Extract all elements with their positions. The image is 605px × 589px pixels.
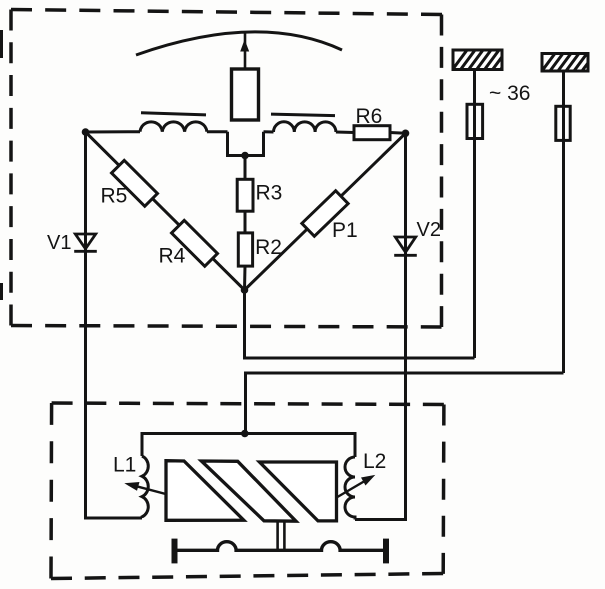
inductor L1 bbox=[142, 456, 148, 518]
wire: right arm diagonal bbox=[245, 133, 406, 290]
wire: left node to left coil bbox=[86, 130, 141, 133]
plunger stem bbox=[278, 521, 285, 550]
supply terminal 1 (hatched) bbox=[450, 46, 518, 73]
left pole bar bbox=[141, 113, 206, 115]
svg-text:R5: R5 bbox=[101, 185, 128, 208]
svg-text:~ 36: ~ 36 bbox=[489, 82, 530, 105]
node: left top corner bbox=[82, 128, 90, 136]
scan mark left edge top bbox=[0, 30, 3, 58]
svg-text:L1: L1 bbox=[113, 454, 136, 477]
resistor R2 bbox=[238, 233, 252, 266]
arrow L2 (adjustable) bbox=[321, 475, 375, 507]
svg-text:R6: R6 bbox=[356, 105, 383, 128]
inductor L2 bbox=[345, 457, 355, 520]
fixed coil left bbox=[140, 122, 207, 132]
node: bridge vertex bbox=[241, 286, 249, 294]
resistor R5 bbox=[112, 160, 158, 206]
wire: center step-down U bbox=[228, 132, 264, 156]
core right trapezoid bbox=[260, 462, 337, 521]
svg-text:V2: V2 bbox=[417, 219, 441, 241]
node: right top corner bbox=[402, 130, 410, 138]
base end bar left bbox=[172, 539, 178, 564]
wire: R6 to right node bbox=[390, 131, 406, 135]
meter pointer arrow bbox=[240, 34, 249, 70]
wire: V2 branch upper bbox=[404, 133, 407, 255]
core left trapezoid bbox=[166, 461, 244, 521]
node: center tap junction bbox=[241, 152, 249, 160]
svg-text:L2: L2 bbox=[363, 450, 386, 473]
wire: supply 2 to transducer bbox=[246, 373, 564, 434]
core middle stripe bbox=[201, 461, 296, 521]
wire: V1 branch lower bbox=[86, 251, 143, 518]
resistor R4 bbox=[172, 220, 218, 266]
base rail with humps bbox=[174, 542, 387, 551]
wire: vertex feed to supply 1 bbox=[245, 290, 475, 358]
svg-text:P1: P1 bbox=[332, 219, 358, 242]
fuse F2 bbox=[556, 106, 570, 140]
wire: supply line 2 bbox=[562, 71, 565, 373]
outer dashed box (measuring unit) bbox=[11, 10, 442, 328]
base end bar right bbox=[383, 539, 389, 564]
resistor R3 bbox=[237, 179, 253, 211]
wire: right coil to R6 bbox=[336, 131, 354, 135]
arrow L1 (adjustable) bbox=[124, 482, 188, 500]
wire: R2 to vertex bbox=[243, 266, 247, 290]
wire: supply line 1 bbox=[473, 70, 476, 359]
wire: V2 branch lower bbox=[355, 255, 406, 519]
wire: step to right coil bbox=[264, 130, 274, 133]
svg-text:R3: R3 bbox=[256, 182, 283, 205]
node: transducer feed junction bbox=[241, 430, 249, 438]
meter moving-coil frame bbox=[232, 69, 259, 120]
lower dashed box (transducer unit) bbox=[51, 403, 444, 579]
scan mark left edge middle bbox=[0, 283, 3, 300]
wire: left coil to center step bbox=[207, 130, 228, 133]
wire: R3 to R2 bbox=[244, 211, 247, 233]
wire: V1 branch upper bbox=[84, 132, 87, 251]
wire: transducer top rail bbox=[142, 434, 355, 458]
svg-text:R4: R4 bbox=[159, 245, 186, 268]
diode V1 bbox=[74, 234, 97, 251]
svg-text:V1: V1 bbox=[47, 232, 71, 254]
wire: center tap down to R3 bbox=[244, 156, 247, 180]
potentiometer P1 bbox=[302, 191, 348, 237]
wire: left arm diagonal bbox=[86, 132, 245, 290]
fixed coil right bbox=[274, 122, 336, 132]
fuse F1 bbox=[467, 104, 483, 138]
right pole bar bbox=[271, 114, 335, 116]
meter scale arc bbox=[136, 32, 342, 55]
supply terminal 2 (hatched) bbox=[539, 48, 599, 75]
diode V2 bbox=[394, 237, 417, 255]
resistor R6 bbox=[354, 126, 390, 140]
